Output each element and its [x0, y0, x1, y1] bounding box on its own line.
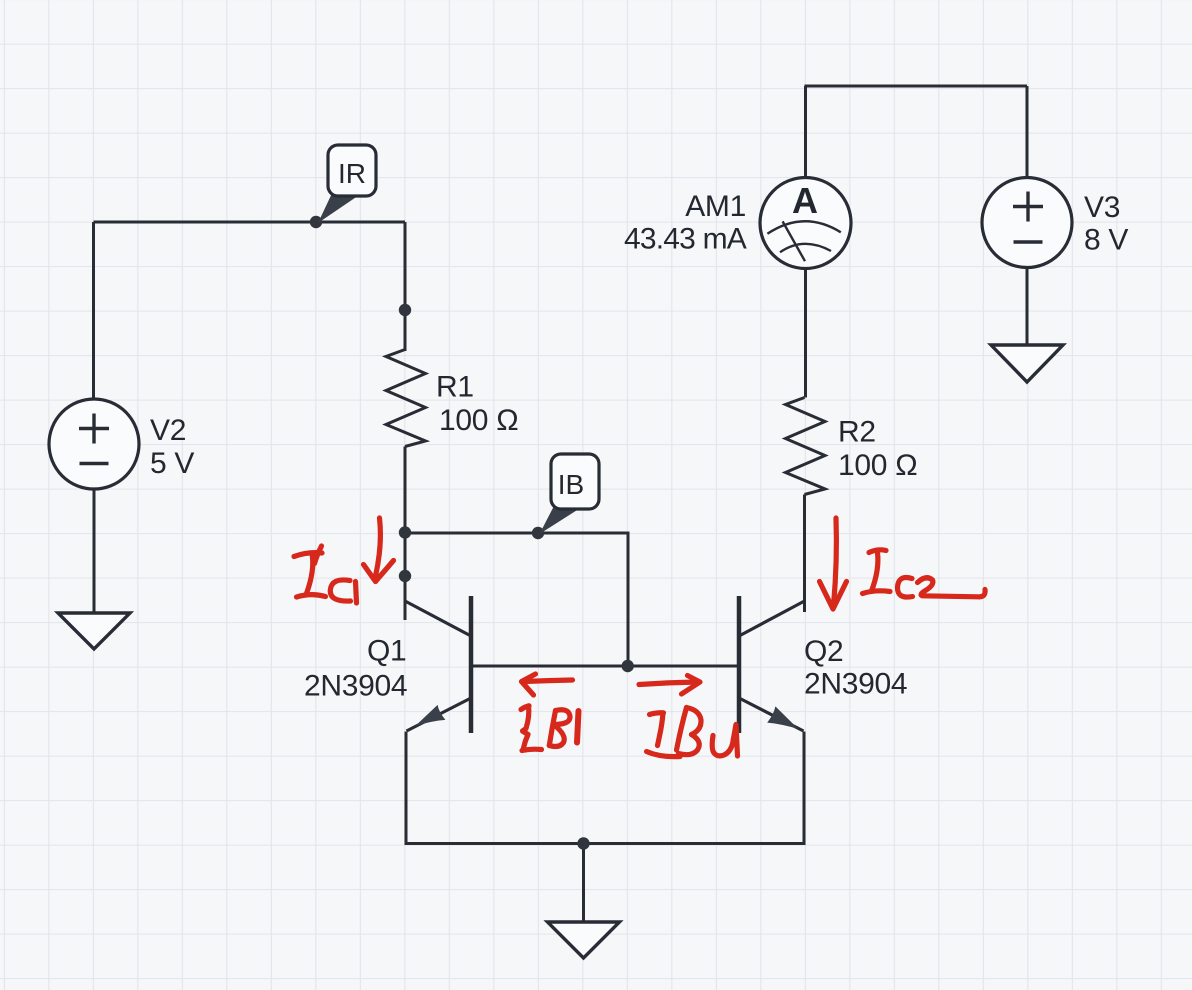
svg-text:8 V: 8 V: [1084, 224, 1128, 257]
svg-text:5 V: 5 V: [150, 447, 194, 480]
svg-text:R2: R2: [838, 416, 876, 449]
svg-text:Q1: Q1: [367, 635, 406, 668]
svg-text:100 Ω: 100 Ω: [439, 404, 518, 437]
svg-text:R1: R1: [436, 371, 474, 404]
svg-text:V2: V2: [150, 414, 186, 447]
svg-text:2N3904: 2N3904: [304, 670, 407, 703]
svg-text:2N3904: 2N3904: [804, 668, 907, 701]
svg-text:100 Ω: 100 Ω: [838, 449, 917, 482]
svg-text:43.43 mA: 43.43 mA: [624, 223, 747, 256]
svg-text:AM1: AM1: [685, 190, 746, 223]
svg-text:Q2: Q2: [804, 635, 843, 668]
svg-text:IR: IR: [338, 158, 366, 189]
svg-text:A: A: [792, 180, 818, 221]
svg-text:IB: IB: [558, 469, 584, 500]
svg-text:V3: V3: [1084, 191, 1120, 224]
